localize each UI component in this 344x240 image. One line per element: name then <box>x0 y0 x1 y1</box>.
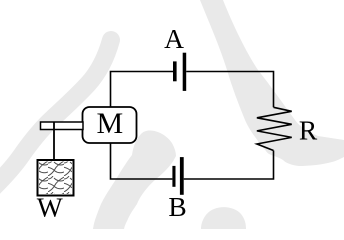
svg-text:M: M <box>97 107 124 140</box>
svg-text:R: R <box>299 115 318 146</box>
svg-text:W: W <box>37 192 63 223</box>
svg-text:A: A <box>164 23 184 54</box>
svg-text:B: B <box>168 191 186 222</box>
